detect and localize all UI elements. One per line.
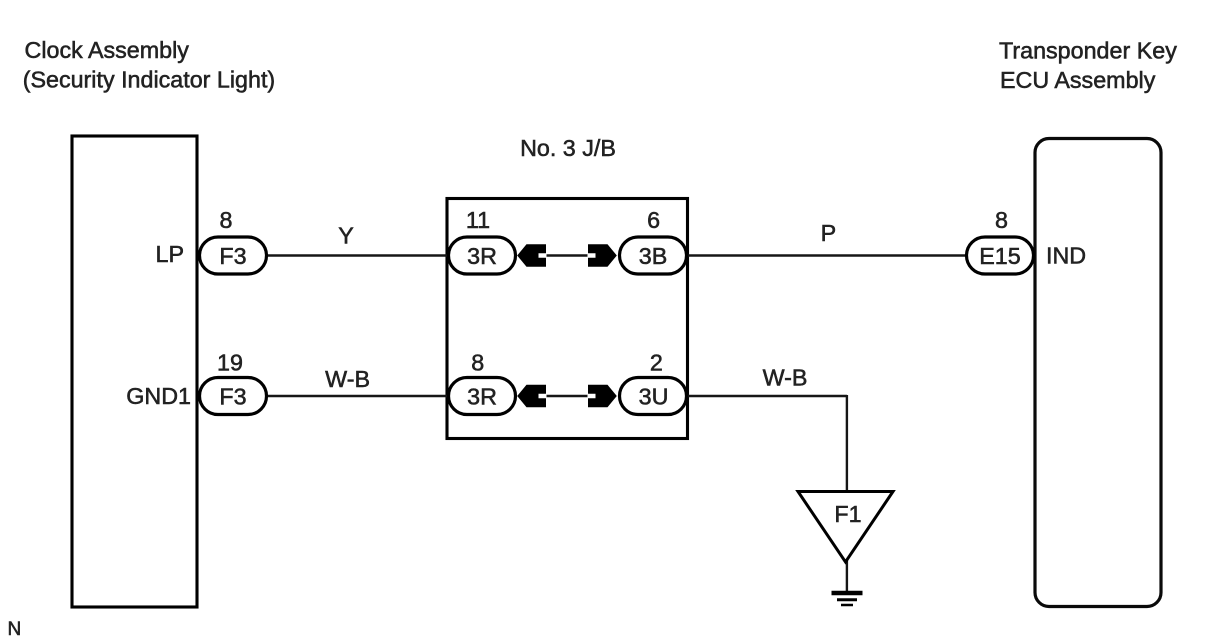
svg-text:F1: F1: [834, 501, 861, 527]
svg-text:N: N: [8, 619, 22, 640]
svg-text:3R: 3R: [467, 243, 497, 269]
svg-text:(Security Indicator Light): (Security Indicator Light): [23, 67, 276, 93]
svg-text:3R: 3R: [467, 384, 497, 410]
svg-text:11: 11: [466, 207, 490, 233]
svg-text:IND: IND: [1046, 243, 1086, 269]
svg-text:3B: 3B: [639, 243, 668, 269]
svg-text:19: 19: [217, 350, 243, 376]
svg-text:8: 8: [220, 207, 233, 233]
svg-text:Y: Y: [338, 223, 354, 249]
svg-text:Transponder Key: Transponder Key: [999, 37, 1177, 63]
svg-text:F3: F3: [219, 384, 246, 410]
svg-text:3U: 3U: [639, 384, 669, 410]
svg-text:P: P: [821, 220, 837, 246]
svg-text:W-B: W-B: [325, 366, 370, 392]
svg-text:Clock Assembly: Clock Assembly: [25, 37, 190, 63]
svg-text:ECU Assembly: ECU Assembly: [1000, 67, 1156, 93]
svg-text:F3: F3: [219, 243, 246, 269]
svg-text:8: 8: [995, 207, 1008, 233]
svg-text:No. 3 J/B: No. 3 J/B: [520, 135, 616, 161]
svg-text:E15: E15: [979, 243, 1020, 269]
svg-text:2: 2: [650, 350, 663, 376]
svg-text:GND1: GND1: [126, 383, 191, 409]
svg-text:W-B: W-B: [763, 365, 808, 391]
svg-text:LP: LP: [156, 241, 185, 267]
svg-text:6: 6: [647, 207, 660, 233]
svg-text:8: 8: [471, 350, 484, 376]
